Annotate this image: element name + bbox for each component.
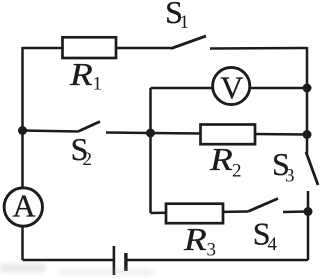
svg-text:1: 1 bbox=[180, 12, 190, 33]
svg-text:1: 1 bbox=[93, 74, 103, 95]
svg-text:2: 2 bbox=[232, 161, 242, 182]
svg-text:4: 4 bbox=[268, 234, 278, 255]
svg-text:2: 2 bbox=[83, 149, 93, 170]
svg-text:3: 3 bbox=[285, 166, 295, 187]
svg-text:3: 3 bbox=[207, 240, 217, 261]
svg-text:A: A bbox=[12, 188, 35, 224]
svg-text:R: R bbox=[69, 58, 93, 93]
svg-text:R: R bbox=[209, 143, 233, 178]
svg-text:R: R bbox=[183, 223, 207, 258]
svg-text:V: V bbox=[220, 70, 243, 106]
